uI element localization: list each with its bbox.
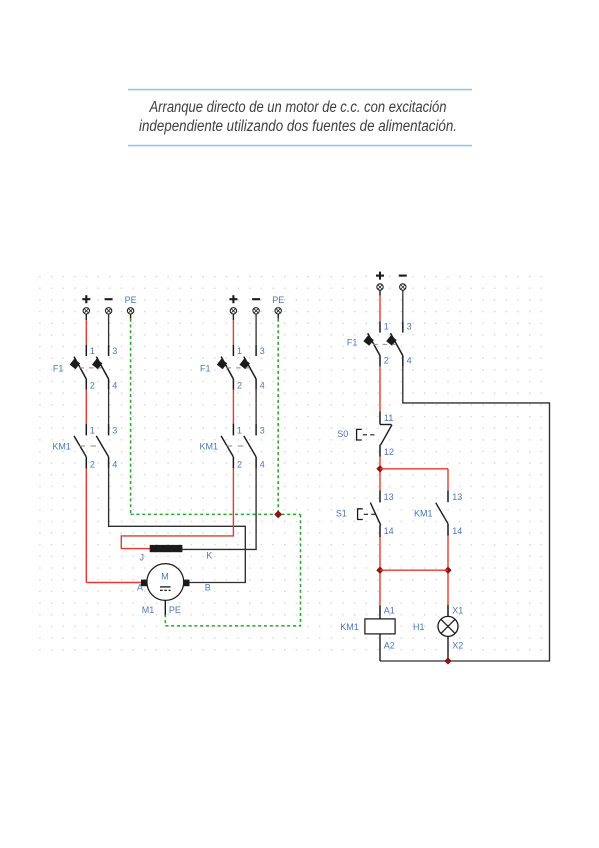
svg-text:2: 2 bbox=[384, 356, 389, 366]
svg-text:A1: A1 bbox=[384, 606, 395, 616]
svg-text:KM1: KM1 bbox=[414, 508, 433, 518]
svg-text:J: J bbox=[140, 553, 145, 563]
svg-text:14: 14 bbox=[384, 526, 394, 536]
svg-text:S0: S0 bbox=[337, 429, 348, 439]
svg-text:4: 4 bbox=[407, 356, 412, 366]
svg-text:1: 1 bbox=[237, 346, 242, 356]
svg-text:A2: A2 bbox=[384, 641, 395, 651]
svg-text:PE: PE bbox=[125, 295, 137, 305]
svg-text:KM1: KM1 bbox=[199, 442, 218, 452]
svg-text:F1: F1 bbox=[200, 363, 211, 373]
svg-text:14: 14 bbox=[452, 526, 462, 536]
svg-text:12: 12 bbox=[384, 447, 394, 457]
svg-text:4: 4 bbox=[112, 380, 117, 390]
svg-text:13: 13 bbox=[384, 492, 394, 502]
svg-text:2: 2 bbox=[237, 380, 242, 390]
svg-text:K: K bbox=[206, 551, 212, 561]
svg-text:2: 2 bbox=[90, 380, 95, 390]
svg-text:11: 11 bbox=[384, 413, 393, 423]
svg-text:1: 1 bbox=[384, 322, 389, 332]
svg-text:KM1: KM1 bbox=[340, 622, 359, 632]
svg-text:M: M bbox=[161, 572, 169, 582]
svg-text:Arranque directo de un motor d: Arranque directo de un motor de c.c. con… bbox=[149, 99, 447, 116]
svg-text:3: 3 bbox=[112, 426, 117, 436]
svg-text:F1: F1 bbox=[347, 338, 358, 348]
svg-text:3: 3 bbox=[407, 322, 412, 332]
svg-text:F1: F1 bbox=[53, 363, 64, 373]
svg-text:2: 2 bbox=[90, 459, 95, 469]
svg-text:S1: S1 bbox=[336, 508, 347, 518]
svg-text:1: 1 bbox=[90, 346, 95, 356]
svg-text:A: A bbox=[137, 582, 143, 592]
svg-text:KM1: KM1 bbox=[52, 442, 71, 452]
svg-text:4: 4 bbox=[260, 380, 265, 390]
svg-text:3: 3 bbox=[260, 426, 265, 436]
svg-text:B: B bbox=[205, 582, 211, 592]
svg-text:13: 13 bbox=[452, 492, 462, 502]
svg-text:4: 4 bbox=[112, 459, 117, 469]
svg-text:1: 1 bbox=[90, 426, 95, 436]
svg-text:PE: PE bbox=[272, 295, 284, 305]
svg-text:X1: X1 bbox=[452, 606, 463, 616]
svg-text:M1: M1 bbox=[142, 605, 155, 615]
svg-text:PE: PE bbox=[169, 605, 181, 615]
svg-text:2: 2 bbox=[237, 459, 242, 469]
svg-text:3: 3 bbox=[260, 346, 265, 356]
svg-text:X2: X2 bbox=[452, 641, 463, 651]
svg-text:4: 4 bbox=[260, 459, 265, 469]
svg-text:independiente utilizando dos f: independiente utilizando dos fuentes de … bbox=[139, 118, 457, 135]
svg-text:3: 3 bbox=[112, 346, 117, 356]
svg-text:1: 1 bbox=[237, 426, 242, 436]
svg-text:H1: H1 bbox=[413, 622, 425, 632]
